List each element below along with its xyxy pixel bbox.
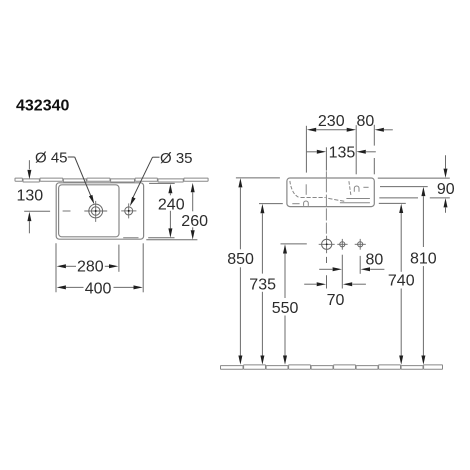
overflow arch symbol (front) — [354, 186, 359, 192]
svg-text:810: 810 — [410, 250, 437, 267]
svg-text:80: 80 — [366, 252, 384, 269]
dimension 230 top — [307, 128, 316, 132]
extension line right hole down — [359, 256, 361, 274]
dimension 130 (plan left) — [28, 160, 30, 169]
overflow dash right — [363, 186, 368, 188]
back ledge upper line (front) — [346, 198, 370, 200]
reference line A right — [378, 177, 450, 179]
extension lines below basin (plan) — [55, 243, 57, 292]
reference line C (ledge level, broken) — [379, 197, 418, 199]
top extension line x306 (front) — [305, 126, 307, 173]
fixing hole right (front) — [355, 239, 366, 250]
dimension 400 (plan) — [57, 285, 66, 289]
hole D35 (plan) — [121, 203, 136, 218]
floor tile band — [221, 365, 443, 369]
back ledge lower line (front) — [340, 202, 370, 204]
dimension 740 — [399, 204, 403, 213]
svg-text:Ø 45: Ø 45 — [35, 149, 68, 166]
extension lines right of basin (plan) — [149, 182, 175, 184]
hidden bowl bottom (dashed) — [301, 197, 326, 199]
dimension 280 (plan) — [57, 264, 66, 268]
svg-text:260: 260 — [181, 213, 208, 230]
svg-text:400: 400 — [85, 280, 112, 297]
basin front view outline — [287, 178, 374, 207]
svg-text:Ø 35: Ø 35 — [160, 150, 193, 167]
hidden drain slope (dashed) — [328, 198, 345, 201]
reference line D left (lower ledge) — [259, 203, 283, 205]
dimension 240 (plan) — [168, 184, 172, 193]
svg-text:240: 240 — [158, 196, 185, 213]
dimension 550 — [283, 244, 287, 253]
extension line middle hole down — [341, 255, 343, 289]
svg-text:740: 740 — [388, 273, 415, 290]
basin inner bowl (plan) — [59, 185, 119, 237]
dimension 850 — [238, 178, 242, 187]
reference line A left (basin top level) — [236, 177, 280, 179]
dimension 80 top — [375, 128, 384, 132]
top extension line x374 (front, broken) — [373, 125, 375, 146]
fixing dash left — [292, 203, 299, 205]
top extension line x356 (front) — [355, 125, 357, 174]
svg-text:70: 70 — [327, 292, 345, 309]
top extension line x326 (front) — [325, 147, 327, 170]
dimension 90 — [445, 155, 447, 168]
svg-text:280: 280 — [77, 259, 104, 276]
svg-text:550: 550 — [272, 300, 299, 317]
svg-text:90: 90 — [437, 181, 455, 198]
svg-text:230: 230 — [318, 113, 345, 130]
svg-text:130: 130 — [17, 188, 44, 205]
hole row centerline left segment — [281, 243, 307, 245]
dimension 80 lower (front holes) — [319, 268, 332, 270]
svg-text:80: 80 — [357, 113, 375, 130]
tap hole D45 (plan) — [84, 201, 107, 222]
fixing slot line (front) — [305, 184, 307, 195]
wall tile band (plan view) — [15, 178, 208, 182]
dimension 810 — [421, 187, 425, 196]
svg-text:135: 135 — [329, 145, 356, 162]
vertical centerline (front view, dash-dot) — [325, 171, 327, 233]
reference line D right — [379, 202, 406, 204]
hidden bowl left wall (dashed) — [290, 181, 300, 198]
hidden bowl right wall (dashed) — [349, 181, 351, 195]
tap hole (front) — [319, 236, 335, 254]
dimension 135 top — [307, 151, 317, 153]
dimension 735 — [260, 204, 264, 213]
dimension 70 (front holes) — [304, 283, 316, 285]
svg-text:432340: 432340 — [16, 98, 69, 115]
centerline dash in bowl — [63, 210, 71, 212]
fixing arch symbol (front bottom) — [304, 201, 309, 206]
fixing hole middle (front) — [337, 239, 347, 250]
svg-text:735: 735 — [249, 276, 276, 293]
deck step segment (plan) — [123, 237, 138, 239]
centerline dashes below tap hole — [326, 257, 328, 263]
svg-text:850: 850 — [227, 251, 254, 268]
basin outer outline (plan) — [56, 183, 143, 239]
reference line B (overflow level) — [380, 186, 428, 188]
dimension 260 (plan) — [191, 183, 195, 192]
